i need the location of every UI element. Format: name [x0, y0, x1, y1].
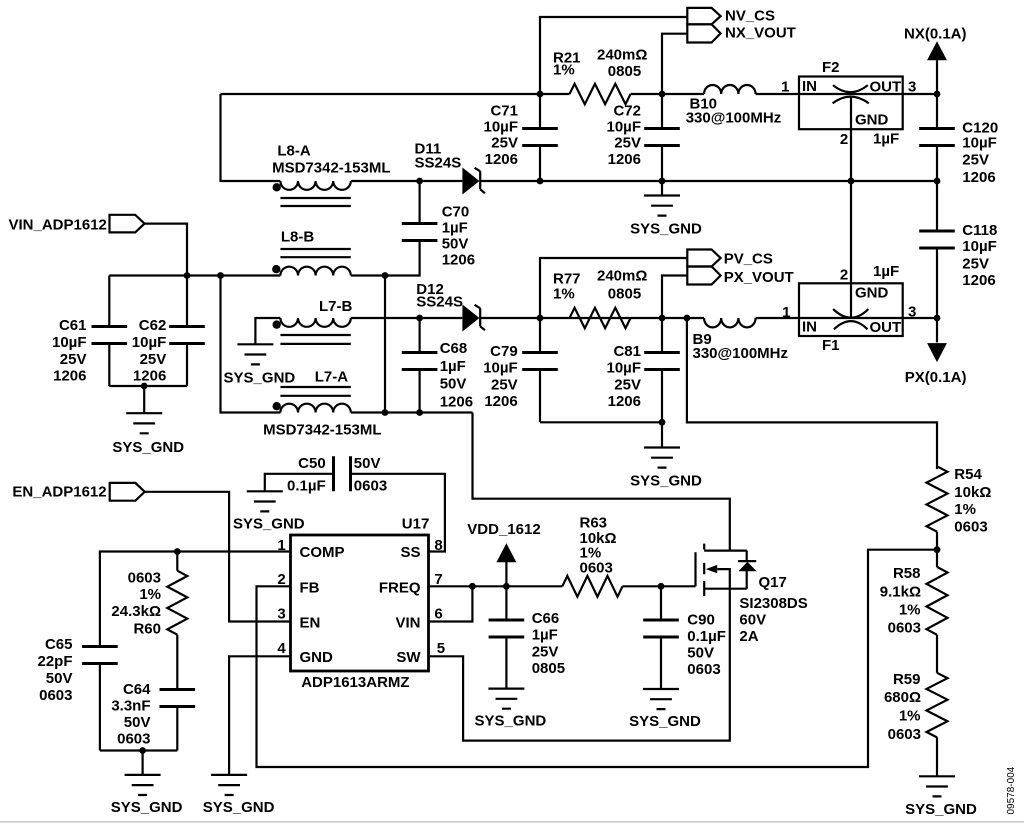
svg-text:10µF: 10µF: [962, 238, 997, 255]
resistor R59: [927, 673, 948, 738]
svg-text:GND: GND: [300, 649, 334, 666]
svg-text:SYS_GND: SYS_GND: [203, 799, 275, 816]
ground C72 rail: [661, 181, 663, 196]
svg-text:PX(0.1A): PX(0.1A): [905, 369, 967, 386]
svg-text:25V: 25V: [491, 135, 518, 152]
connector NV_CS: [687, 8, 720, 24]
svg-text:R58: R58: [893, 565, 921, 582]
svg-text:3: 3: [277, 605, 285, 622]
svg-text:U17: U17: [402, 516, 430, 533]
svg-text:SS24S: SS24S: [416, 293, 463, 310]
svg-text:SYS_GND: SYS_GND: [233, 516, 305, 533]
node junction FB divider: [934, 546, 941, 553]
wire GND pin4: [229, 656, 290, 775]
svg-text:1%: 1%: [899, 708, 921, 725]
svg-text:10µF: 10µF: [52, 334, 87, 351]
svg-text:10µF: 10µF: [962, 134, 997, 151]
svg-text:10µF: 10µF: [607, 118, 642, 135]
connector EN_ADP1612: [110, 483, 145, 501]
svg-text:10µF: 10µF: [483, 360, 518, 377]
svg-text:C50: C50: [298, 455, 326, 472]
svg-text:1%: 1%: [899, 602, 921, 619]
svg-text:25V: 25V: [491, 376, 518, 393]
power VDD_1612 arrow: [496, 543, 516, 562]
svg-text:C64: C64: [123, 681, 151, 698]
svg-text:3: 3: [908, 79, 916, 96]
svg-text:VDD_1612: VDD_1612: [467, 521, 540, 538]
svg-text:SS: SS: [400, 544, 420, 561]
svg-text:SYS_GND: SYS_GND: [111, 799, 183, 816]
svg-text:0805: 0805: [608, 63, 641, 80]
svg-text:50V: 50V: [687, 645, 714, 662]
svg-text:C68: C68: [440, 340, 468, 357]
svg-text:1206: 1206: [442, 252, 475, 269]
transistor Q17 body diode: [738, 551, 756, 589]
svg-text:F2: F2: [822, 59, 840, 76]
wire PV_CS route: [540, 258, 687, 318]
wire C50 right to SS: [351, 474, 445, 552]
ground U17: [211, 775, 247, 795]
wire PX_VOUT route: [662, 276, 687, 319]
wire main rail: [109, 274, 385, 276]
wire C64 C65 gnd: [100, 749, 177, 751]
svg-text:10kΩ: 10kΩ: [954, 484, 991, 501]
svg-text:50V: 50V: [124, 714, 151, 731]
svg-text:MSD7342-153ML: MSD7342-153ML: [263, 421, 381, 438]
svg-text:1µF: 1µF: [442, 220, 468, 237]
wire EN route: [145, 492, 291, 622]
svg-text:25V: 25V: [60, 351, 87, 368]
svg-text:6: 6: [434, 605, 442, 622]
capacitor C50: [334, 456, 351, 491]
wire VIN: [145, 224, 188, 276]
ferrite bead B10: [704, 85, 756, 94]
wire L7-B left: [255, 318, 280, 344]
svg-text:C81: C81: [613, 343, 641, 360]
power NX(0.1A) arrow: [927, 41, 947, 60]
svg-text:3: 3: [908, 304, 916, 321]
svg-text:1206: 1206: [962, 272, 995, 289]
transistor Q17 drain lead: [704, 549, 747, 551]
node junction COMP: [174, 548, 181, 555]
svg-text:MSD7342-153ML: MSD7342-153ML: [272, 160, 390, 177]
L7-A polarity dot: [273, 402, 281, 410]
svg-text:SYS_GND: SYS_GND: [224, 370, 296, 387]
node junction L7-A rail: [382, 409, 389, 416]
capacitor C62: [169, 327, 205, 344]
svg-text:0603: 0603: [117, 731, 150, 748]
svg-text:1206: 1206: [440, 393, 473, 410]
wire C79 C81 gnd rail: [540, 421, 662, 423]
capacitor C68: [402, 353, 438, 370]
transistor Q17 arrow: [717, 569, 730, 589]
svg-text:1%: 1%: [139, 586, 161, 603]
op-amp U17 box: [291, 535, 429, 671]
filter F1 box: [799, 283, 903, 336]
svg-text:FREQ: FREQ: [379, 580, 421, 597]
resistor R58: [927, 567, 948, 635]
svg-text:1: 1: [781, 79, 789, 96]
svg-text:25V: 25V: [140, 351, 167, 368]
diode D12: [462, 305, 479, 332]
svg-text:50V: 50V: [46, 670, 73, 687]
svg-text:25V: 25V: [962, 152, 989, 169]
wire COMP: [100, 552, 291, 647]
svg-text:C65: C65: [45, 636, 73, 653]
inductor L8-A: [280, 181, 350, 190]
svg-text:24.3kΩ: 24.3kΩ: [111, 603, 161, 620]
connector PX_VOUT: [687, 267, 720, 285]
svg-text:240mΩ: 240mΩ: [597, 267, 647, 284]
wire SW route: [429, 589, 730, 741]
svg-text:VIN: VIN: [395, 614, 420, 631]
scan artifact line: [0, 821, 1024, 823]
svg-text:5: 5: [437, 640, 445, 657]
wire L8-A left: [221, 94, 281, 181]
svg-text:C71: C71: [490, 103, 518, 120]
wire Q17 drain route: [473, 413, 730, 551]
svg-text:60V: 60V: [739, 612, 766, 629]
wire C50 left: [265, 474, 334, 492]
node junction FREQ: [469, 583, 476, 590]
svg-text:25V: 25V: [614, 135, 641, 152]
svg-text:SYS_GND: SYS_GND: [630, 472, 702, 489]
L8-B polarity dot: [272, 265, 280, 273]
wire VIN pin6: [429, 586, 473, 621]
svg-text:1µF: 1µF: [440, 358, 466, 375]
svg-text:C79: C79: [490, 343, 518, 360]
svg-text:4: 4: [277, 640, 286, 657]
svg-text:0603: 0603: [888, 726, 921, 743]
svg-text:ADP1613ARMZ: ADP1613ARMZ: [301, 674, 409, 691]
svg-text:C70: C70: [442, 204, 470, 221]
svg-text:22pF: 22pF: [37, 653, 72, 670]
filter F2 box: [799, 77, 903, 130]
capacitor C79: [522, 353, 558, 370]
svg-text:EN: EN: [300, 614, 321, 631]
svg-text:50V: 50V: [440, 376, 467, 393]
svg-text:25V: 25V: [614, 376, 641, 393]
capacitor C66: [489, 620, 525, 637]
svg-text:1%: 1%: [954, 501, 976, 518]
resistor R54: [927, 466, 948, 531]
inductor L7-A: [280, 404, 350, 413]
wire L7-A rail: [221, 276, 473, 413]
svg-text:1%: 1%: [553, 286, 575, 303]
svg-text:1µF: 1µF: [873, 131, 899, 148]
filter F1 feedthrough arcs: [833, 309, 868, 318]
capacitor C61: [92, 327, 128, 344]
node junction main rail: [184, 272, 191, 279]
svg-text:COMP: COMP: [300, 544, 345, 561]
ground C66: [488, 689, 524, 709]
svg-text:C118: C118: [962, 222, 997, 239]
resistor R60: [167, 571, 187, 635]
inductor L8-B: [280, 267, 350, 276]
ground R59: [919, 776, 955, 796]
svg-text:1206: 1206: [485, 151, 518, 168]
svg-text:1: 1: [782, 304, 790, 321]
wire PX feedback tap: [687, 318, 937, 469]
wire NV_CS route: [540, 17, 687, 94]
ferrite bead B9: [704, 318, 756, 327]
ground C50: [247, 491, 283, 511]
node junction D12 rail: [416, 315, 423, 322]
capacitor C81: [644, 353, 680, 370]
svg-text:L7-A: L7-A: [315, 368, 349, 385]
svg-text:10µF: 10µF: [484, 118, 519, 135]
svg-text:R54: R54: [954, 466, 982, 483]
ground C90: [643, 689, 679, 709]
svg-text:2A: 2A: [739, 628, 758, 645]
filter F2 feedthrough arcs: [833, 85, 868, 92]
capacitor C70: [402, 224, 438, 241]
svg-text:IN: IN: [802, 78, 817, 95]
svg-text:25V: 25V: [532, 643, 559, 660]
svg-text:Q17: Q17: [759, 574, 787, 591]
svg-text:L8-A: L8-A: [277, 142, 311, 159]
svg-text:0603: 0603: [888, 620, 921, 637]
transistor Q17 channel: [703, 544, 705, 596]
svg-text:PV_CS: PV_CS: [724, 251, 773, 268]
wire L8-B to L7-A link: [384, 276, 386, 413]
svg-text:SS24S: SS24S: [415, 155, 462, 172]
L7-A core lines: [280, 387, 350, 396]
svg-text:1µF: 1µF: [873, 263, 899, 280]
svg-text:0603: 0603: [39, 687, 72, 704]
svg-text:C90: C90: [687, 612, 715, 629]
svg-text:25V: 25V: [962, 255, 989, 272]
svg-text:0603: 0603: [580, 559, 613, 576]
svg-text:F1: F1: [822, 337, 840, 354]
svg-text:0805: 0805: [532, 660, 565, 677]
svg-text:NV_CS: NV_CS: [725, 8, 775, 25]
svg-text:0805: 0805: [608, 286, 641, 303]
svg-text:680Ω: 680Ω: [884, 689, 921, 706]
svg-text:SYS_GND: SYS_GND: [475, 713, 547, 730]
L8 core lines: [280, 198, 350, 206]
svg-text:0603: 0603: [128, 569, 161, 586]
wire NX rail: [221, 93, 938, 95]
ground C64 C65: [125, 775, 161, 795]
svg-text:NX_VOUT: NX_VOUT: [725, 25, 796, 42]
node junction D11 rail: [416, 178, 423, 185]
svg-text:GND: GND: [855, 285, 889, 302]
svg-text:R60: R60: [133, 620, 161, 637]
svg-text:1206: 1206: [962, 169, 995, 186]
wire FB route: [257, 550, 938, 767]
svg-text:OUT: OUT: [870, 79, 902, 96]
capacitor C72: [644, 129, 680, 146]
svg-text:9.1kΩ: 9.1kΩ: [880, 583, 921, 600]
svg-text:8: 8: [434, 537, 442, 554]
capacitor C65: [82, 647, 118, 664]
svg-text:GND: GND: [855, 112, 889, 129]
svg-text:09578-004: 09578-004: [1006, 766, 1017, 814]
ground L7-B: [237, 344, 273, 364]
svg-text:2: 2: [840, 267, 848, 284]
power PX(0.1A) arrow: [927, 343, 947, 362]
svg-text:1206: 1206: [608, 393, 641, 410]
capacitor C90: [643, 620, 679, 637]
svg-text:SYS_GND: SYS_GND: [629, 713, 701, 730]
svg-text:1206: 1206: [53, 368, 86, 385]
filter F2 pin2 wire: [850, 97, 852, 319]
svg-text:0603: 0603: [954, 518, 987, 535]
capacitor C118: [919, 231, 955, 248]
resistor R21: [570, 84, 631, 104]
svg-text:0603: 0603: [354, 478, 387, 495]
svg-text:SW: SW: [396, 649, 421, 666]
svg-text:1206: 1206: [608, 151, 641, 168]
svg-text:C62: C62: [139, 317, 167, 334]
ground C61 C62: [126, 413, 162, 433]
svg-text:10µF: 10µF: [607, 360, 642, 377]
svg-text:330@100MHz: 330@100MHz: [693, 345, 789, 362]
svg-text:SI2308DS: SI2308DS: [739, 595, 807, 612]
L8-A polarity dot: [273, 183, 281, 191]
node junction NX rail: [537, 91, 544, 98]
svg-text:SYS_GND: SYS_GND: [112, 439, 184, 456]
wire NX_VOUT route: [662, 34, 687, 94]
connector NX_VOUT: [687, 24, 720, 42]
transistor Q17 gate: [694, 552, 696, 586]
svg-text:NX(0.1A): NX(0.1A): [904, 26, 967, 43]
svg-text:1206: 1206: [484, 393, 517, 410]
svg-text:R59: R59: [893, 671, 921, 688]
wire C61 C62 gnd: [109, 385, 187, 387]
inductor L7-B: [280, 318, 350, 327]
svg-text:330@100MHz: 330@100MHz: [686, 110, 782, 127]
L8-B core lines: [280, 249, 350, 257]
svg-text:0.1µF: 0.1µF: [687, 628, 726, 645]
svg-text:PX_VOUT: PX_VOUT: [724, 269, 794, 286]
svg-text:1206: 1206: [133, 368, 166, 385]
capacitor C120: [919, 129, 955, 146]
connector PV_CS: [687, 250, 720, 267]
svg-text:OUT: OUT: [870, 319, 902, 336]
svg-text:10µF: 10µF: [132, 334, 167, 351]
wire FREQ: [429, 585, 696, 587]
svg-text:SYS_GND: SYS_GND: [630, 220, 702, 237]
svg-text:C72: C72: [613, 103, 641, 120]
svg-text:EN_ADP1612: EN_ADP1612: [12, 484, 106, 501]
svg-text:C61: C61: [59, 317, 87, 334]
diode D11: [462, 168, 479, 195]
svg-text:1µF: 1µF: [532, 627, 558, 644]
svg-text:IN: IN: [802, 319, 817, 336]
svg-text:SYS_GND: SYS_GND: [905, 801, 977, 818]
svg-text:VIN_ADP1612: VIN_ADP1612: [9, 216, 107, 233]
svg-text:50V: 50V: [442, 236, 469, 253]
capacitor C64: [160, 690, 196, 707]
wire D11 rail: [351, 180, 937, 182]
svg-text:2: 2: [840, 131, 848, 148]
ground C79 C81: [644, 448, 680, 468]
svg-text:L8-B: L8-B: [281, 229, 315, 246]
resistor R77: [570, 308, 631, 328]
svg-text:240mΩ: 240mΩ: [597, 46, 647, 63]
connector VIN_ADP1612: [110, 215, 145, 233]
wire D12 rail: [351, 317, 937, 319]
svg-text:0603: 0603: [687, 661, 720, 678]
L7-B polarity dot: [273, 320, 281, 328]
svg-text:3.3nF: 3.3nF: [111, 698, 150, 715]
svg-text:FB: FB: [300, 580, 320, 597]
svg-text:50V: 50V: [354, 455, 381, 472]
transistor Q17 source lead: [704, 588, 747, 590]
svg-text:0.1µF: 0.1µF: [287, 478, 326, 495]
svg-text:1%: 1%: [553, 62, 575, 79]
svg-text:L7-B: L7-B: [319, 298, 353, 315]
resistor R63: [562, 576, 622, 597]
L7-B core lines: [280, 335, 350, 344]
svg-text:C66: C66: [532, 610, 560, 627]
capacitor C71: [522, 129, 558, 146]
